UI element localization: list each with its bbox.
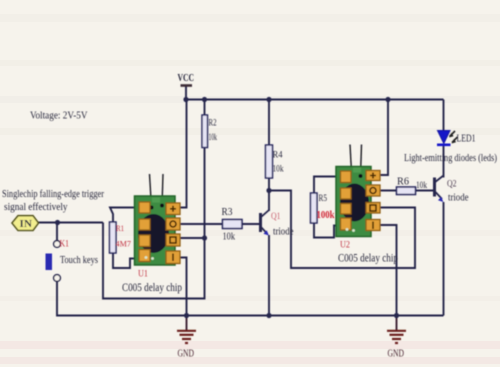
svg-text:Light-emitting diodes (leds): Light-emitting diodes (leds) (404, 153, 497, 164)
wire: VCC column down to chip1 + pad (176, 100, 187, 208)
resistor R5 (311, 193, 335, 223)
svg-text:R5: R5 (319, 194, 328, 204)
svg-text:U2: U2 (340, 241, 350, 251)
svg-text:triode: triode (448, 193, 469, 204)
wire: R2 column top (204, 100, 206, 116)
wire: R5 bottom staircase to chip2 bottom-left pad (314, 223, 341, 238)
chip U2 (C005 delay module) (336, 145, 398, 265)
node: R2/pin2 junction (202, 235, 207, 240)
svg-text:10k: 10k (209, 133, 218, 143)
wire: LED cathode to Q2 collector (443, 146, 445, 178)
node: GND2 on rail (394, 313, 399, 318)
svg-text:R6: R6 (397, 177, 409, 188)
svg-text:Q1: Q1 (271, 212, 281, 222)
wire: chip2 O pad to R6 (379, 190, 397, 192)
wire: chip2 left pad to R5 top (314, 177, 341, 194)
touch key K1 (46, 239, 99, 282)
wire: IN line (39, 222, 104, 224)
svg-text:4M7: 4M7 (116, 239, 132, 249)
wire: R4 column top (268, 100, 270, 146)
svg-text:Touch keys: Touch keys (60, 255, 98, 266)
wire: R3 to Q1 base (242, 223, 260, 225)
transistor Q2 (435, 176, 469, 204)
ground GND1 (177, 331, 196, 343)
node: chip2 + column (385, 97, 390, 102)
wire: Q1 collector junction to chip2 trigger loop (269, 191, 415, 269)
svg-text:VCC: VCC (178, 72, 195, 84)
svg-text:Voltage: 2V-5V: Voltage: 2V-5V (30, 111, 88, 122)
svg-text:10k: 10k (273, 165, 284, 175)
resistor R2 (202, 115, 217, 148)
svg-text:R2: R2 (209, 119, 217, 129)
node: Q1 collector junction (266, 188, 271, 193)
svg-text:10k: 10k (223, 232, 236, 243)
wire: R1 bottom staircase to chip1 bottom-left pad (113, 253, 139, 268)
svg-text:U1: U1 (138, 270, 148, 280)
wires group (39, 86, 444, 330)
svg-text:100k: 100k (317, 210, 335, 221)
node: IN/switch (55, 220, 60, 225)
svg-text:10k: 10k (416, 181, 427, 191)
svg-text:Singlechip falling-edge trigge: Singlechip falling-edge trigger (2, 189, 104, 200)
wire: chip1 I pad to GND1 (180, 258, 187, 316)
wire: VCC stub (185, 86, 187, 100)
wire: Q2 emitter down and along bottom (443, 202, 445, 316)
wire: chip1 pin2 to R2 junction (176, 237, 205, 239)
resistor R6 (397, 177, 428, 195)
svg-text:K1: K1 (60, 239, 70, 249)
ground GND2 (387, 331, 406, 343)
wire: chip2 + pad to rail (379, 100, 389, 176)
resistor R4 (266, 145, 284, 178)
svg-text:GND: GND (388, 349, 405, 360)
node: VCC/rail (183, 97, 188, 102)
svg-text:Q2: Q2 (447, 180, 457, 190)
svg-text:R4: R4 (273, 151, 283, 161)
wire: switch top branch (56, 223, 58, 241)
svg-text:GND: GND (178, 349, 195, 360)
resistor R1 (110, 222, 132, 253)
svg-text:triode: triode (273, 227, 294, 238)
svg-text:IN: IN (20, 218, 33, 230)
node: R2 top (202, 97, 207, 102)
wire: chip1 O pad to R3 (180, 223, 223, 225)
wire: R6 to Q2 base (416, 190, 435, 192)
wire: chip2 I pad to GND2 (379, 225, 397, 316)
wire: chip1 top-left pad to R1 top (110, 208, 139, 223)
wire: GND2 lead (396, 316, 398, 331)
node: GND1 on rail (184, 313, 189, 318)
node: R4 top (266, 97, 271, 102)
transistor Q1 (261, 210, 294, 238)
svg-text:C005 delay chip: C005 delay chip (338, 251, 398, 265)
wire: Q1 emitter down to ground rail (268, 235, 270, 316)
wire: top power rail (186, 99, 444, 101)
svg-text:signal effectively: signal effectively (4, 202, 68, 213)
resistor R3 (222, 207, 243, 243)
svg-text:LED1: LED1 (457, 134, 476, 145)
wire: Q1 collector vertical (268, 191, 270, 212)
port IN (12, 216, 39, 231)
LED1 (404, 131, 497, 165)
wire: R2 bottom to junction and loop to IN line (103, 148, 205, 299)
VCC symbol (178, 72, 195, 86)
node: Q1 emitter on rail (266, 313, 271, 318)
wire: LED column from rail (443, 100, 445, 132)
wire: GND1 lead (186, 316, 188, 331)
svg-text:R1: R1 (116, 223, 124, 233)
wire: R4 bottom to Q1 collector junction (268, 178, 270, 191)
svg-text:R3: R3 (222, 207, 233, 218)
chip U1 (C005 delay module) (122, 174, 182, 294)
wire: switch bottom to ground rail (57, 282, 444, 316)
svg-text:C005 delay chip: C005 delay chip (122, 280, 182, 294)
